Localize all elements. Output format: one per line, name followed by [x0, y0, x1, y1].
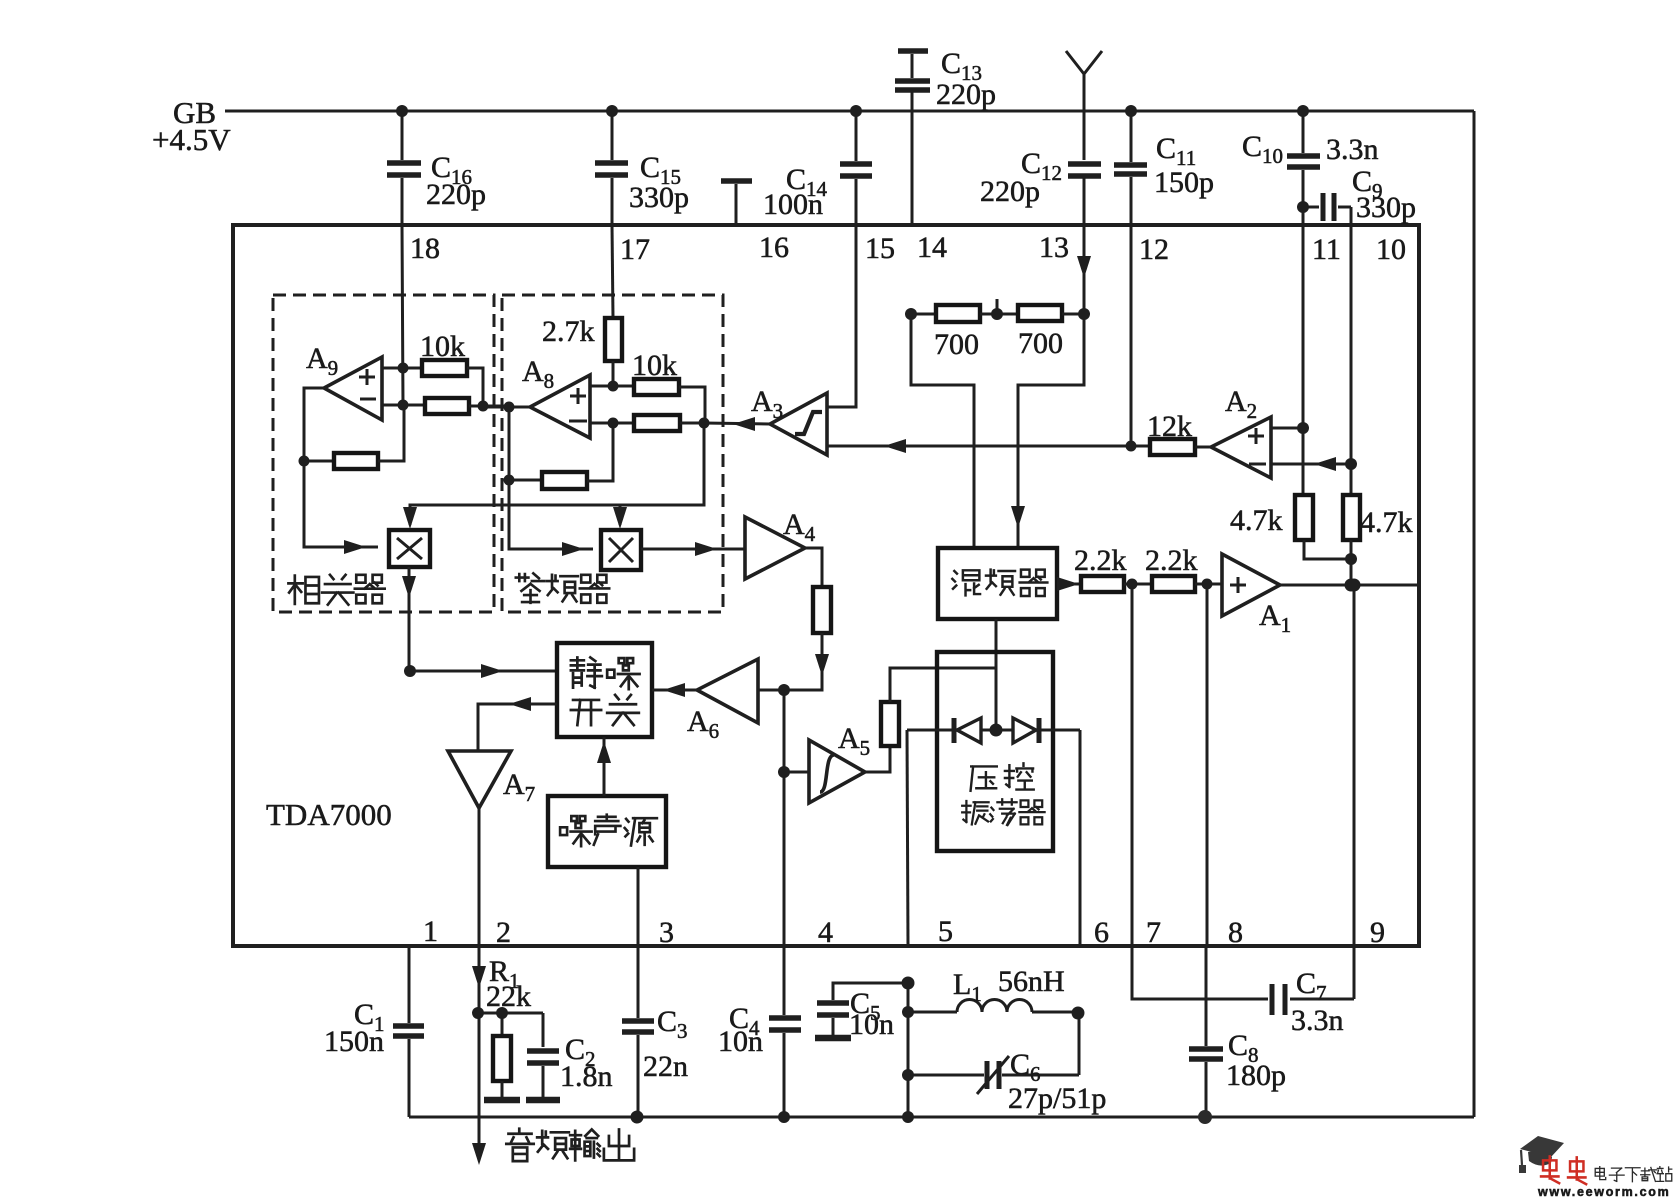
noise source block 噪声源	[548, 796, 666, 867]
discriminator dashed box	[502, 295, 723, 612]
svg-text:10k: 10k	[632, 349, 677, 382]
pin 3 label	[659, 916, 674, 949]
resistor 2.2k left	[1074, 544, 1127, 592]
wire A6 output to mute switch	[652, 683, 697, 697]
capacitor C10	[1242, 105, 1379, 207]
resistor lower (A8)	[634, 415, 680, 431]
svg-text:www.eeworm.com: www.eeworm.com	[1537, 1185, 1670, 1197]
node 700 mid junction with stub	[980, 299, 1018, 320]
node TDA7000 label	[266, 797, 392, 832]
op-amp A2	[1195, 385, 1271, 478]
svg-text:+4.5V: +4.5V	[152, 122, 231, 157]
resistor 4.7k left	[1230, 428, 1313, 540]
wire noise source to mute switch	[597, 737, 611, 796]
antenna	[1066, 51, 1102, 160]
svg-text:18: 18	[410, 232, 440, 265]
svg-text:100n: 100n	[763, 188, 823, 221]
wire +4.5V supply rail top	[225, 110, 1474, 113]
ground R1	[484, 1081, 520, 1100]
wire pin 15 net to A3 input	[827, 225, 856, 407]
wire mixer to VCO	[995, 619, 998, 730]
node A8 resistors join discriminator node	[680, 418, 710, 429]
wire pin 17 net into 2.7k	[612, 225, 613, 318]
svg-text:17: 17	[620, 233, 650, 266]
resistor 700 left	[934, 305, 980, 361]
capacitor C5 10n	[815, 977, 915, 1042]
svg-text:27p/51p: 27p/51p	[1008, 1082, 1106, 1115]
resistor A9 feedback	[334, 453, 378, 469]
svg-text:330p: 330p	[629, 181, 689, 214]
wire pin 5 net down	[907, 730, 908, 946]
wire bottom common rail	[409, 1116, 1474, 1119]
pin 4 label	[818, 916, 833, 949]
svg-text:12k: 12k	[1147, 410, 1192, 443]
svg-text:5: 5	[938, 915, 953, 948]
resistor 12k	[1147, 410, 1195, 455]
logo url	[1537, 1185, 1670, 1197]
resistor 10k upper (A9)	[420, 330, 467, 376]
wire A2 + input from pin 11	[1271, 422, 1309, 434]
pin 7 label	[1146, 916, 1161, 949]
wire A9 output to multiplier 1 input	[304, 461, 378, 554]
pin 16 label	[759, 231, 789, 264]
svg-text:7: 7	[1146, 916, 1161, 949]
wire A8 10k right end down	[679, 387, 705, 423]
pin 1 label	[423, 915, 438, 948]
svg-text:220p: 220p	[980, 175, 1040, 208]
op-amp A7	[448, 751, 535, 808]
svg-text:220p: 220p	[936, 78, 996, 111]
wire A4 resistor to pin 4 node	[778, 633, 829, 696]
wire pin 9 net down	[1353, 585, 1356, 946]
mixer block 混频器	[938, 548, 1057, 619]
pin 13 label	[1039, 231, 1069, 264]
capacitor C13	[895, 47, 996, 225]
capacitor C12	[980, 147, 1101, 258]
svg-text:4: 4	[818, 916, 833, 949]
node audio output label 音频输出	[506, 1129, 634, 1161]
svg-text:4.7k: 4.7k	[1360, 506, 1413, 539]
wire A9 output feedback	[299, 388, 335, 467]
svg-text:6: 6	[1094, 916, 1109, 949]
svg-text:2.2k: 2.2k	[1074, 544, 1127, 577]
op-amp A3	[751, 385, 827, 455]
pin 10 label	[1376, 233, 1406, 266]
resistor 10k (A8)	[632, 349, 679, 395]
pin 6 label	[1094, 916, 1109, 949]
pin 18 label	[410, 232, 440, 265]
node pin 7 junction	[1124, 579, 1152, 590]
svg-text:22k: 22k	[486, 980, 531, 1013]
logo graduation cap	[1519, 1136, 1564, 1173]
pin 16 stub terminal	[721, 181, 752, 225]
wire pin 6 net down	[1079, 730, 1082, 946]
svg-text:330p: 330p	[1356, 191, 1416, 224]
pin 14 label	[917, 231, 947, 264]
svg-text:10n: 10n	[849, 1008, 894, 1041]
capacitor C3 22n	[622, 946, 688, 1124]
svg-text:22n: 22n	[643, 1050, 688, 1083]
wire A2 - input from pin 10	[1271, 457, 1357, 471]
resistor A4 output	[813, 587, 831, 633]
svg-text:14: 14	[917, 231, 947, 264]
wire A8 + input	[590, 381, 634, 392]
wire A1 output	[1280, 579, 1417, 592]
multiplier 2	[601, 530, 641, 570]
wire A3 output to discriminator node	[704, 417, 770, 431]
wire noise source output pin 3	[637, 867, 640, 946]
varactor diodes pair	[907, 718, 1080, 743]
resistor 4.7k right	[1343, 464, 1413, 540]
pin 15 label	[865, 232, 895, 265]
node pin 8 junction	[1195, 579, 1222, 590]
op-amp A1	[1222, 554, 1291, 637]
svg-text:11: 11	[1312, 233, 1341, 266]
pin 12 label	[1139, 233, 1169, 266]
pin 8 label	[1228, 916, 1243, 949]
svg-text:220p: 220p	[426, 178, 486, 211]
capacitor C2 1.8n	[527, 1013, 613, 1098]
resistor A8 feedback	[542, 472, 587, 489]
wire 700 bracket into mixer	[911, 314, 1084, 548]
pin 17 label	[620, 233, 650, 266]
wire A5 input	[784, 771, 809, 774]
svg-text:2.7k: 2.7k	[542, 315, 595, 348]
capacitor C8 180p	[1189, 946, 1286, 1124]
svg-text:150n: 150n	[324, 1025, 384, 1058]
capacitor C4 10n	[718, 946, 801, 1123]
wire A5 resistor to VCO line	[890, 668, 996, 702]
wire A2 via 12k to A3 lower input	[827, 439, 1150, 453]
capacitor C11	[1114, 105, 1214, 225]
node discriminator label 鉴频器	[516, 573, 609, 602]
wire A8 output to multiplier 2 input	[509, 480, 593, 556]
capacitor C15	[595, 105, 689, 225]
capacitor C1	[324, 946, 424, 1117]
pin 5 label	[938, 915, 953, 948]
op-amp A6	[687, 659, 758, 743]
node pin 1 junction	[404, 665, 416, 677]
op-amp A5	[809, 722, 870, 803]
resistor 700 right	[1018, 305, 1063, 360]
wire pin 8 net down	[1206, 584, 1209, 946]
svg-text:180p: 180p	[1226, 1059, 1286, 1092]
resistor 2.2k right	[1145, 544, 1198, 592]
wire discriminator node to multiplier tops	[403, 423, 704, 529]
capacitor C9	[1297, 165, 1416, 224]
svg-text:9: 9	[1370, 916, 1385, 949]
logo text dianzi xiazaizhan	[1595, 1167, 1672, 1182]
capacitor C16	[387, 105, 486, 225]
svg-text:8: 8	[1228, 916, 1243, 949]
multiplier 1	[389, 530, 430, 567]
wire pin 14 net	[911, 313, 936, 316]
svg-text:3.3n: 3.3n	[1326, 133, 1379, 166]
svg-text:12: 12	[1139, 233, 1169, 266]
wire A8 feedback to inverting node	[587, 423, 613, 481]
op-amp A8	[522, 355, 590, 438]
svg-text:2: 2	[496, 916, 511, 949]
op-amp A9	[306, 342, 382, 420]
wire pin 5 to bottom rail	[902, 983, 914, 1123]
mute switch block 静噪开关	[557, 643, 652, 737]
pin 9 label	[1370, 916, 1385, 949]
wire mult2 output to A4	[641, 542, 745, 556]
wire A9 resistor right ends join	[467, 368, 509, 412]
wire antenna into pin 13 with arrow	[1077, 256, 1091, 314]
wire mute switch to A7	[478, 697, 557, 751]
svg-text:1.8n: 1.8n	[560, 1060, 613, 1093]
svg-text:700: 700	[934, 328, 979, 361]
svg-text:150p: 150p	[1154, 166, 1214, 199]
wire multiplier 1 output to pin 1 node	[402, 567, 416, 671]
wire pin 2 audio output	[472, 946, 486, 1165]
capacitor C14	[763, 105, 872, 225]
wire A5 output up	[865, 746, 890, 772]
correlator dashed box	[273, 295, 494, 612]
wire A7 output pin 2	[478, 808, 481, 946]
wire pin 7 net down	[1131, 584, 1134, 946]
pin 2 label	[496, 916, 511, 949]
logo text chongchong red	[1541, 1156, 1586, 1184]
capacitor C6 trimmer 27p/51p	[908, 1013, 1106, 1115]
resistor 2.7k	[542, 315, 622, 361]
wire A8 - input	[590, 418, 634, 429]
svg-text:56nH: 56nH	[998, 965, 1065, 998]
pin 11 label	[1312, 233, 1341, 266]
wire pin 18 net inside IC	[382, 225, 425, 411]
svg-text:10: 10	[1376, 233, 1406, 266]
node GB +4.5V label	[152, 95, 231, 157]
wire A6 input	[758, 689, 784, 692]
wire mixer output	[1057, 577, 1081, 591]
wire 2.7k to A8 non-inverting node	[612, 361, 615, 386]
svg-text:15: 15	[865, 232, 895, 265]
wire 4.7k bottoms join to A1 output	[1304, 540, 1358, 592]
wire pin 4 net down	[778, 690, 790, 946]
wire pin 10 net C9 to A2-	[1350, 207, 1353, 464]
svg-text:3: 3	[659, 916, 674, 949]
op-amp U1 TDA7000 IC outline	[233, 225, 1419, 946]
node pin 14 junction	[905, 308, 917, 320]
wire A4 output down	[805, 548, 822, 587]
wire pin 1 node to mute switch	[410, 664, 557, 678]
resistor lower (A9)	[425, 398, 469, 414]
VCO block 压控振荡器	[937, 652, 1053, 851]
resistor R1 22k	[478, 955, 543, 1081]
svg-text:10n: 10n	[718, 1025, 763, 1058]
wire A8 output node	[483, 402, 530, 413]
wire pin 12 net C11 down	[1130, 225, 1133, 446]
svg-text:TDA7000: TDA7000	[266, 797, 392, 832]
wire A8 feedback branch	[504, 407, 543, 486]
svg-text:10k: 10k	[420, 330, 465, 363]
svg-text:700: 700	[1018, 327, 1063, 360]
wire +4.5V rail right side drop	[1473, 111, 1476, 1117]
ground C2	[526, 1097, 560, 1104]
svg-text:13: 13	[1039, 231, 1069, 264]
inductor L1 56nH	[902, 965, 1085, 1020]
svg-text:1: 1	[423, 915, 438, 948]
svg-text:4.7k: 4.7k	[1230, 504, 1283, 537]
node correlator label 相关器	[288, 575, 384, 605]
node pin 13 junction	[1062, 308, 1090, 320]
wire pin 11 net C10 to A2+	[1302, 207, 1305, 428]
svg-text:16: 16	[759, 231, 789, 264]
svg-text:2.2k: 2.2k	[1145, 544, 1198, 577]
wire A9 feedback to inverting node	[378, 406, 404, 461]
svg-text:3.3n: 3.3n	[1291, 1004, 1344, 1037]
capacitor C7 3.3n	[1132, 946, 1354, 1037]
resistor A5 output	[881, 702, 899, 746]
op-amp A4	[745, 508, 816, 579]
